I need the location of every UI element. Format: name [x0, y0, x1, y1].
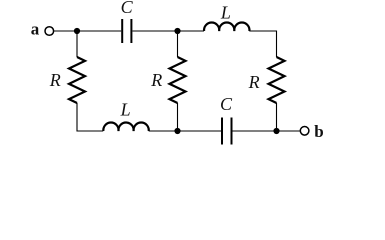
wire top-middle (capacitor to inductor) — [133, 30, 205, 32]
svg-text:R: R — [248, 72, 260, 92]
wire middle branch lower lead — [177, 103, 179, 131]
svg-text:R: R — [49, 70, 61, 90]
svg-text:C: C — [121, 0, 134, 17]
wire middle branch upper lead — [177, 31, 179, 57]
terminal b — [300, 127, 309, 136]
wire bottom-middle (inductor to capacitor) — [149, 130, 221, 132]
svg-text:L: L — [120, 99, 131, 119]
inductor L2 (bottom) — [103, 123, 148, 131]
resistor R1 (left) — [69, 57, 85, 103]
wire left branch lower lead + bottom-left corner — [77, 103, 103, 131]
wire bottom-right (capacitor to b) — [233, 130, 301, 132]
wire right branch lower lead — [276, 103, 278, 131]
wire left branch upper lead — [76, 31, 78, 57]
capacitor C2 (bottom) right plate — [231, 118, 233, 145]
svg-text:L: L — [220, 3, 231, 23]
capacitor C1 (top) left plate — [121, 19, 123, 43]
wire top-left (a to capacitor) — [54, 30, 121, 32]
node top-middle junction — [174, 28, 180, 34]
capacitor C2 (bottom) left plate — [221, 118, 223, 145]
resistor R2 (middle) — [170, 57, 186, 103]
resistor R3 (right) — [269, 57, 285, 103]
terminal a — [45, 27, 54, 36]
svg-text:a: a — [31, 19, 40, 38]
capacitor C1 (top) right plate — [130, 19, 132, 43]
svg-text:C: C — [220, 94, 233, 114]
svg-text:b: b — [314, 122, 323, 141]
node top-left junction — [74, 28, 80, 34]
inductor L1 (top) — [204, 23, 249, 31]
wire top-right + corner down — [249, 31, 276, 57]
node bottom-right junction — [273, 128, 279, 134]
svg-text:R: R — [150, 70, 162, 90]
node bottom-middle junction — [174, 128, 180, 134]
